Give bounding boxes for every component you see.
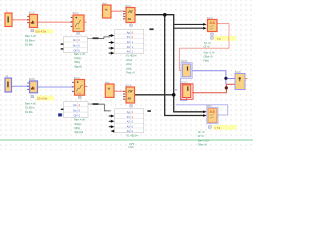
table T1b: [64, 102, 88, 118]
svg-text:hi: hi: [105, 7, 108, 11]
black wire branch down to B8 pin2: [165, 15, 205, 116]
block B2(4): [182, 64, 190, 77]
grid icon under B8(1): [208, 126, 211, 129]
junction dot red: [225, 86, 228, 89]
block B2(4) outline: [181, 63, 192, 79]
T3 input arrows: [109, 115, 111, 117]
svg-text:Om: Om: [73, 109, 77, 112]
svg-text:V1 <B10>+: V1 <B10>+: [127, 135, 140, 138]
block B8(1): [208, 109, 217, 123]
svg-text:Off: Off: [74, 115, 77, 118]
svg-text:B2(2): B2(2): [73, 12, 79, 15]
svg-text:B2(4): B2(4): [181, 60, 187, 63]
svg-text:D1 80m+: D1 80m+: [25, 40, 35, 43]
svg-text:V1 <B1>s: V1 <B1>s: [126, 54, 137, 57]
junction dot at (165,15): [163, 13, 167, 17]
block B2(3): [126, 87, 135, 103]
T1b output wire with dash: [88, 103, 92, 105]
block B2(1) scope bottom: [75, 80, 85, 96]
svg-text:0.0 i 0.0s: 0.0 i 0.0s: [37, 98, 48, 101]
red wire from B2(5) output to B4(4) pin2: [192, 84, 235, 93]
glyph squarewave: [128, 11, 133, 13]
block High top: [103, 5, 112, 18]
svg-text:On <0: On <0: [198, 131, 205, 134]
svg-text:vOsd: vOsd: [126, 59, 132, 62]
pins B2(6): [28, 82, 30, 84]
svg-text:vOrd: vOrd: [126, 63, 132, 66]
svg-text:On(s)=: On(s)=: [74, 57, 82, 60]
block B4(1) top right: [208, 20, 218, 32]
T1b left dash row2: [61, 109, 64, 110]
black wire from B2(3) output: [135, 94, 174, 96]
blue wire B2(6) to B2(1)b: [38, 86, 73, 88]
T2 input arrows: [109, 35, 111, 37]
svg-text:D1 80m+: D1 80m+: [25, 107, 35, 110]
svg-text:Of <0: Of <0: [198, 135, 205, 138]
grid icon under B2(6): [31, 95, 34, 97]
T3 output dash: [147, 110, 151, 112]
svg-text:B4(4): B4(4): [235, 71, 241, 74]
arrowheads into B8(1): [203, 110, 206, 113]
svg-text:hi: hi: [108, 87, 111, 91]
arrowheads into B4(1): [203, 23, 206, 26]
svg-text:D1 60s: D1 60s: [25, 44, 33, 47]
block B8(1) outline: [207, 107, 218, 123]
red stub right of B2(1)b: [85, 86, 88, 88]
grid icon under B2(2): [77, 32, 80, 34]
red stub right of B2(2): [85, 21, 87, 23]
red wire High2 to B2(3): [114, 90, 123, 92]
pins B2(1)b: [72, 82, 74, 84]
block B4(4) right: [235, 74, 245, 90]
svg-text:D1 60s: D1 60s: [25, 111, 33, 114]
svg-text:= 7.0: = 7.0: [215, 127, 221, 130]
svg-text:Off(s): Off(s): [74, 61, 80, 64]
svg-text:AD: AD: [128, 18, 132, 21]
junction dot blue: [224, 77, 227, 80]
svg-text:Ram = off: Ram = off: [74, 53, 85, 56]
svg-text:v.5u8: v.5u8: [128, 146, 134, 149]
svg-text:B8(1): B8(1): [206, 105, 212, 108]
green separator line: [0, 139, 253, 140]
blue wire from B2(4) output to B4(4) pin1: [192, 71, 235, 79]
curve glyph: [75, 20, 81, 27]
svg-text:High: High: [102, 3, 108, 6]
port-value box 0.0 1 0.0s: [37, 96, 55, 101]
grid icon under B2(1)b: [79, 96, 82, 98]
blue wire segment down to pin2: [225, 79, 227, 85]
svg-text:vdsd: vdsd: [126, 67, 132, 70]
T1 left dash row3: [61, 48, 64, 49]
svg-text:Um: Um: [73, 39, 77, 42]
T2 output dash: [149, 28, 153, 30]
table T1: [64, 37, 88, 53]
svg-text:B2(1): B2(1): [125, 5, 131, 8]
T1b selected dash row3: [58, 113, 62, 116]
black wire branch to B4(1) pin2: [174, 27, 204, 29]
svg-text:Om: Om: [73, 44, 77, 47]
svg-text:Um: Um: [73, 104, 77, 107]
red wire B2(1) to B2(2): [38, 21, 74, 23]
svg-text:AD: AD: [128, 98, 132, 101]
triangles glyph: [210, 21, 213, 23]
block B2(5): [183, 85, 191, 98]
svg-text:Gan <1.0>: Gan <1.0>: [204, 52, 216, 55]
svg-text:Ram = off: Ram = off: [74, 119, 85, 122]
svg-text:Gan <1.0>: Gan <1.0>: [198, 139, 210, 142]
grid icon under B2(3): [130, 105, 133, 107]
pins B2(2): [71, 17, 73, 19]
red wire A1 to B2(1): [12, 19, 28, 21]
wire T1 to T2: [99, 37, 111, 39]
svg-text:7.0: 7.0: [217, 38, 221, 41]
block B2(6): [30, 81, 38, 93]
table T3: [115, 109, 144, 133]
block B2(2) scope: [73, 15, 84, 32]
table T2: [115, 29, 144, 53]
pins B2(3) 4x: [123, 91, 125, 93]
svg-text:B4(1): B4(1): [207, 17, 213, 20]
T1 left dash row2: [61, 43, 64, 44]
junction dot at (173.7,94.8): [172, 93, 176, 97]
svg-text:B2(5): B2(5): [182, 81, 188, 84]
port-value box 0.0 4.7m: [35, 29, 53, 34]
svg-text:B2(1): B2(1): [74, 77, 80, 80]
block B2(5) outline: [181, 84, 193, 100]
grid icon under E: [130, 24, 133, 26]
pins E 4x: [123, 10, 125, 12]
block B2(1) logic top: [126, 8, 135, 23]
svg-text:0.0 i 4.7m: 0.0 i 4.7m: [35, 31, 46, 34]
svg-text:Offsd <0: Offsd <0: [198, 144, 208, 147]
light blue drop wire from B2(4) to B2(5) bottom: [180, 79, 186, 101]
T1 output wire with dash: [88, 37, 93, 39]
blue wire A2 to B2(6): [12, 85, 28, 87]
grid icon under B2(1): [31, 30, 34, 32]
red wire High to B2(1)top: [111, 10, 123, 12]
black wire W1 from B2(1) output: [135, 15, 205, 112]
blue stub: [175, 89, 177, 90]
glyph staircase: [31, 22, 32, 24]
svg-text:Off(s): Off(s): [74, 127, 80, 130]
block High bottom: [105, 84, 114, 97]
svg-text:Psdc <0: Psdc <0: [126, 72, 135, 75]
pins B2(1): [27, 16, 29, 18]
svg-text:Sign(s): Sign(s): [74, 66, 82, 69]
block B2(1) top: [30, 15, 38, 28]
grid dots: [0, 0, 253, 150]
svg-text:B2(6): B2(6): [29, 78, 35, 81]
svg-text:Sign(s)2: Sign(s)2: [74, 131, 84, 134]
port-value box 7.0: [214, 36, 236, 41]
grid icon under B4(1): [211, 33, 214, 35]
black wire branch to B4(1) pin1: [174, 23, 204, 25]
svg-text:Faint: Faint: [204, 59, 210, 62]
source block A1: [5, 13, 12, 27]
svg-text:Ram = off: Ram = off: [25, 102, 36, 105]
svg-text:High: High: [105, 82, 111, 85]
svg-text:Offsd <0: Offsd <0: [204, 55, 214, 58]
wire T1b to T3: [99, 104, 111, 111]
port-value box 7.0b: [213, 125, 237, 130]
svg-text:B2(1): B2(1): [29, 12, 35, 15]
lavender feedback wire (block B8 loop): [176, 105, 228, 115]
svg-text:Of <0: Of <0: [204, 46, 211, 49]
svg-text:On(s)=: On(s)=: [74, 123, 82, 126]
svg-text:Ram = off: Ram = off: [25, 35, 36, 38]
svg-text:B2(3): B2(3): [125, 84, 131, 87]
source block A2: [5, 78, 12, 92]
red stub right of B4(4): [245, 78, 247, 80]
pink wire loop from B4(1) output: [179, 24, 229, 71]
